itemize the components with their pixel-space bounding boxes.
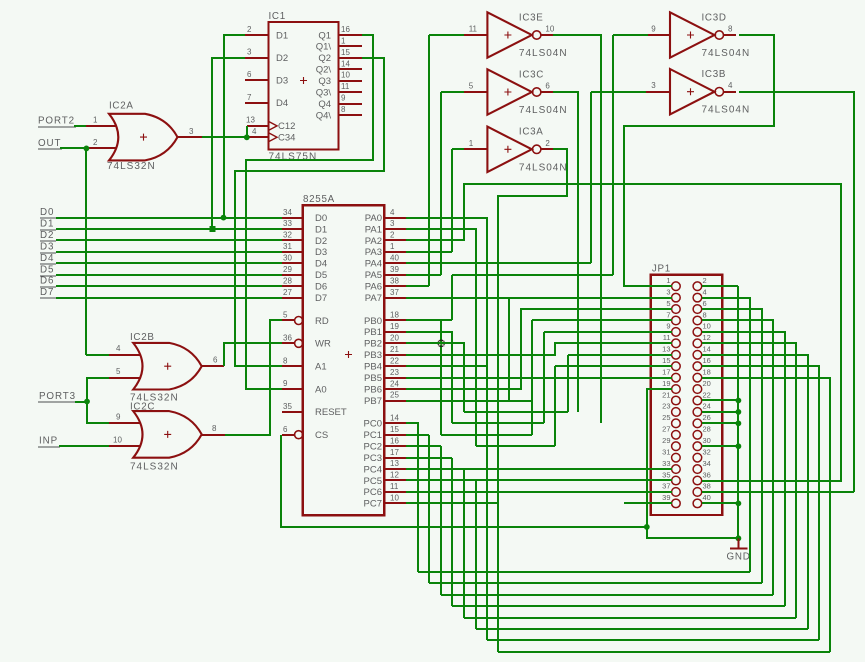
origin cross 8255A bbox=[345, 351, 352, 358]
ground vertical from JP1 pin2 bbox=[737, 286, 739, 538]
8255 pin PA2 stub bbox=[384, 239, 406, 241]
svg-text:1: 1 bbox=[93, 116, 98, 125]
wire JP1 pin 24 to ground vertical bbox=[702, 411, 738, 413]
wire channel PC3 down to rail4 bbox=[451, 458, 453, 606]
connector JP1 box bbox=[651, 275, 723, 515]
svg-text:RESET: RESET bbox=[315, 407, 347, 418]
svg-text:21: 21 bbox=[662, 390, 670, 399]
IC1 pin 16 (Q1) stub bbox=[338, 34, 362, 36]
wire net INP to IC2C pin10 bbox=[59, 445, 109, 447]
8255 pin 35 (RESET) stub bbox=[282, 411, 303, 413]
svg-text:PA1: PA1 bbox=[365, 224, 382, 235]
svg-text:D3: D3 bbox=[40, 241, 54, 252]
JP1 pin 36 pad bbox=[693, 476, 702, 485]
8255 pin D6 stub bbox=[282, 285, 303, 287]
svg-text:19: 19 bbox=[390, 322, 399, 331]
svg-text:25: 25 bbox=[390, 391, 399, 400]
IC3B output pin 4 stub bbox=[724, 91, 736, 93]
8255 pin 6 (CS) stub bbox=[282, 434, 295, 436]
svg-text:26: 26 bbox=[703, 413, 711, 422]
wire JP1 pin 30 to ground vertical bbox=[702, 445, 738, 447]
wire PA2 up to long top wire to JP1 pin36 bbox=[406, 184, 841, 481]
wire net D6 bbox=[56, 285, 282, 287]
8255 pin D7 stub bbox=[282, 297, 303, 299]
wire channel PC5 down to rail6 bbox=[475, 480, 477, 629]
wire PC5 to JP1 pin35 direct bbox=[406, 479, 672, 481]
wire net OUT to IC2A pin2 bbox=[60, 147, 86, 149]
svg-text:74LS04N: 74LS04N bbox=[519, 105, 568, 116]
svg-text:5: 5 bbox=[116, 367, 121, 376]
8255 pin PA4 stub bbox=[384, 262, 406, 264]
svg-text:4: 4 bbox=[728, 81, 733, 90]
inverter IC3C 74LS04N bbox=[487, 69, 531, 114]
svg-text:CS: CS bbox=[315, 430, 328, 441]
wire PB2 down channel to jog bbox=[406, 343, 464, 412]
svg-text:D4: D4 bbox=[40, 253, 54, 264]
svg-text:38: 38 bbox=[703, 482, 711, 491]
8255 pin 9 (A0) stub bbox=[282, 388, 303, 390]
wire net D2 bbox=[56, 239, 282, 241]
svg-text:6: 6 bbox=[703, 299, 707, 308]
svg-text:Q3: Q3 bbox=[318, 76, 331, 87]
svg-text:10: 10 bbox=[703, 322, 711, 331]
svg-text:10: 10 bbox=[390, 494, 399, 503]
wire bottom rail 3 bbox=[441, 594, 773, 596]
wire PA3 to IC3A input channel bbox=[406, 251, 452, 253]
svg-text:15: 15 bbox=[662, 356, 670, 365]
svg-text:3: 3 bbox=[390, 219, 395, 228]
wire net D1 bbox=[56, 228, 282, 230]
JP1 pin 16 pad bbox=[693, 362, 702, 371]
JP1 pin 18 pad bbox=[693, 373, 702, 382]
wire jog PB0 to JP1 pin7 riser bbox=[441, 434, 532, 436]
8255 pin PB1 stub bbox=[384, 331, 406, 333]
svg-text:9: 9 bbox=[651, 25, 656, 34]
svg-text:30: 30 bbox=[283, 254, 292, 263]
wire net D3 bbox=[56, 251, 282, 253]
wire net PORT3 bbox=[75, 401, 87, 403]
IC1 pin 7 (D4) stub bbox=[245, 102, 268, 104]
svg-text:34: 34 bbox=[703, 459, 711, 468]
svg-text:C12: C12 bbox=[278, 121, 295, 132]
JP1 pin 32 pad bbox=[693, 453, 702, 462]
svg-text:18: 18 bbox=[703, 367, 711, 376]
svg-text:20: 20 bbox=[390, 334, 399, 343]
svg-text:30: 30 bbox=[703, 436, 711, 445]
IC1 pin 15 (Q2) stub bbox=[338, 57, 362, 59]
svg-text:74LS04N: 74LS04N bbox=[519, 162, 568, 173]
IC3D input pin 9 stub bbox=[646, 34, 670, 36]
svg-text:18: 18 bbox=[390, 311, 399, 320]
svg-text:IC1: IC1 bbox=[269, 11, 286, 22]
wire IC1 Q1 to 8255 A0 bbox=[246, 35, 373, 389]
svg-text:74LS32N: 74LS32N bbox=[130, 462, 179, 473]
svg-text:25: 25 bbox=[662, 413, 670, 422]
IC2B pin 4 stub bbox=[109, 354, 141, 356]
svg-text:PB0: PB0 bbox=[364, 316, 382, 327]
svg-text:14: 14 bbox=[341, 59, 350, 68]
svg-text:D2: D2 bbox=[315, 236, 327, 247]
svg-text:33: 33 bbox=[283, 219, 292, 228]
wire JP1 pin15 row bbox=[555, 365, 672, 367]
8255 pin 8 (A1) stub bbox=[282, 365, 303, 367]
svg-text:Q4\: Q4\ bbox=[316, 110, 332, 121]
svg-text:D2: D2 bbox=[276, 53, 288, 64]
svg-text:29: 29 bbox=[283, 265, 292, 274]
svg-text:3: 3 bbox=[666, 287, 670, 296]
wire PC3 to channel bbox=[406, 457, 452, 459]
IC2C output pin 8 stub bbox=[202, 434, 225, 436]
IC1 pin 8 (Q4\) stub bbox=[338, 114, 362, 116]
8255 pin PC3 stub bbox=[384, 457, 406, 459]
svg-text:JP1: JP1 bbox=[652, 264, 671, 275]
svg-text:31: 31 bbox=[662, 447, 670, 456]
JP1 pin 28 pad bbox=[693, 430, 702, 439]
junction OUT at vertical bbox=[84, 146, 90, 152]
svg-text:PB1: PB1 bbox=[364, 327, 382, 338]
JP1 pin 6 pad bbox=[693, 305, 702, 314]
8255 pin PC4 stub bbox=[384, 468, 406, 470]
junction on D0 line bbox=[221, 215, 227, 221]
svg-text:PC5: PC5 bbox=[364, 476, 382, 487]
wire jog PB2 to JP1 pin13 riser bbox=[464, 411, 568, 413]
wire JP1 pin15 riser vertical bbox=[554, 366, 556, 446]
svg-text:D7: D7 bbox=[315, 293, 327, 304]
IC3A output pin 2 stub bbox=[541, 148, 553, 150]
svg-text:PORT2: PORT2 bbox=[38, 115, 75, 126]
svg-text:D3: D3 bbox=[315, 247, 327, 258]
junction ground at pin 40 bbox=[736, 500, 742, 506]
svg-text:40: 40 bbox=[390, 254, 399, 263]
svg-text:15: 15 bbox=[341, 48, 350, 57]
JP1 pin 11 pad bbox=[672, 339, 681, 348]
wire IC3D-in jog at PA5 row bbox=[452, 274, 613, 276]
svg-text:74LS04N: 74LS04N bbox=[702, 105, 751, 116]
cursor crosshair marker bbox=[438, 340, 444, 346]
IC1 clock pin 4 (C34) stub and wedge bbox=[247, 136, 268, 138]
svg-text:33: 33 bbox=[662, 459, 670, 468]
inverter IC3D 74LS04N bbox=[670, 12, 714, 57]
svg-text:PC0: PC0 bbox=[364, 419, 382, 430]
svg-text:D5: D5 bbox=[40, 264, 54, 275]
IC3B input pin 3 stub bbox=[646, 91, 670, 93]
svg-text:IC2C: IC2C bbox=[130, 402, 155, 413]
svg-text:IC2A: IC2A bbox=[109, 101, 134, 112]
8255 pin D1 stub bbox=[282, 228, 303, 230]
JP1 pin 22 pad bbox=[693, 396, 702, 405]
svg-text:1: 1 bbox=[469, 139, 474, 148]
svg-text:4: 4 bbox=[116, 344, 121, 353]
svg-text:11: 11 bbox=[390, 482, 399, 491]
JP1 pin 19 pad bbox=[672, 385, 681, 394]
wire net OUT vertical down to IC2B pin 4 bbox=[85, 148, 87, 355]
svg-text:38: 38 bbox=[390, 276, 399, 285]
junction ground at pin 26 bbox=[736, 420, 742, 426]
wire PC1 to channel bbox=[406, 434, 429, 436]
svg-text:9: 9 bbox=[283, 379, 288, 388]
svg-text:16: 16 bbox=[341, 25, 350, 34]
wire PA0 down channel to rail7 bbox=[406, 218, 487, 640]
svg-text:D1: D1 bbox=[276, 30, 288, 41]
svg-text:31: 31 bbox=[283, 242, 292, 251]
8255 pin PC5 stub bbox=[384, 479, 406, 481]
svg-text:10: 10 bbox=[545, 25, 554, 34]
IC IC1 74LS75N box bbox=[269, 22, 339, 150]
JP1 pin 17 pad bbox=[672, 373, 681, 382]
svg-text:8: 8 bbox=[341, 105, 346, 114]
8255 pin PB4 stub bbox=[384, 365, 406, 367]
inverter IC3B 74LS04N bbox=[670, 69, 714, 114]
wire JP1 pin 6 staircase to rail2 bbox=[702, 309, 762, 583]
wire PB7 into pin7 riser junction bbox=[406, 400, 532, 402]
svg-text:23: 23 bbox=[390, 368, 399, 377]
svg-text:D6: D6 bbox=[315, 281, 327, 292]
svg-text:D5: D5 bbox=[315, 270, 327, 281]
svg-text:A1: A1 bbox=[315, 362, 327, 373]
wire IC3A input from PA3 channel bbox=[452, 148, 464, 150]
svg-text:74LS04N: 74LS04N bbox=[702, 48, 751, 59]
wire PA7 to JP1 pin3 bbox=[406, 297, 672, 299]
svg-text:Q4: Q4 bbox=[318, 99, 331, 110]
svg-text:IC3C: IC3C bbox=[519, 69, 544, 80]
IC2A output pin 3 stub bbox=[178, 136, 202, 138]
svg-text:3: 3 bbox=[189, 127, 194, 136]
svg-text:14: 14 bbox=[390, 414, 399, 423]
svg-text:29: 29 bbox=[662, 436, 670, 445]
8255 pin D2 stub bbox=[282, 239, 303, 241]
wire JP1 pin9 riser vertical bbox=[543, 332, 545, 423]
IC3C output pin 6 stub bbox=[541, 91, 553, 93]
JP1 pin 33 pad bbox=[672, 465, 681, 474]
svg-text:D0: D0 bbox=[40, 207, 54, 218]
svg-text:Q1: Q1 bbox=[318, 30, 331, 41]
8255 pin PB3 stub bbox=[384, 354, 406, 356]
JP1 pin 39 pad bbox=[672, 499, 681, 508]
JP1 pin 30 pad bbox=[693, 442, 702, 451]
wire net D7 bbox=[56, 297, 282, 299]
svg-text:PA0: PA0 bbox=[365, 213, 382, 224]
svg-text:IC2B: IC2B bbox=[130, 332, 155, 343]
8255 pin PA7 stub bbox=[384, 297, 406, 299]
svg-text:PA3: PA3 bbox=[365, 247, 382, 258]
wire JP1 pin 22 to ground vertical bbox=[702, 399, 738, 401]
svg-text:39: 39 bbox=[390, 265, 399, 274]
svg-text:PB5: PB5 bbox=[364, 373, 382, 384]
8255 pin 5 (RD) stub bbox=[282, 319, 295, 321]
wire bottom rail 7 bbox=[487, 639, 819, 641]
svg-text:6: 6 bbox=[545, 82, 550, 91]
svg-text:8: 8 bbox=[283, 356, 288, 365]
JP1 pin 15 pad bbox=[672, 362, 681, 371]
IC2B output pin 6 stub bbox=[202, 365, 224, 367]
OR gate IC2C 74LS32N bbox=[133, 411, 202, 458]
svg-text:27: 27 bbox=[662, 425, 670, 434]
svg-text:IC3E: IC3E bbox=[519, 12, 544, 23]
wire channel IC3A-in to PA3 bbox=[451, 149, 453, 252]
JP1 pin 2 pad bbox=[693, 282, 702, 291]
svg-text:34: 34 bbox=[283, 208, 292, 217]
svg-text:7: 7 bbox=[666, 310, 670, 319]
svg-text:3: 3 bbox=[247, 48, 252, 57]
svg-text:15: 15 bbox=[390, 425, 399, 434]
IC3E input pin 11 stub bbox=[464, 34, 487, 36]
svg-text:D6: D6 bbox=[40, 276, 54, 287]
JP1 pin 24 pad bbox=[693, 408, 702, 417]
8255 pin PC6 stub bbox=[384, 491, 406, 493]
svg-text:2: 2 bbox=[545, 139, 550, 148]
svg-text:74LS75N: 74LS75N bbox=[269, 152, 318, 163]
wire PA1 down channel through PB3 to jog bbox=[406, 229, 476, 446]
IC1 pin 6 (D3) stub bbox=[245, 79, 268, 81]
wire bottom rail 1 bbox=[418, 571, 750, 573]
svg-text:8255A: 8255A bbox=[303, 194, 335, 205]
svg-text:1: 1 bbox=[390, 242, 395, 251]
8255 pin PB7 stub bbox=[384, 400, 406, 402]
svg-text:4: 4 bbox=[252, 127, 257, 136]
IC2B pin 5 stub bbox=[109, 377, 141, 379]
wire IC3D output loop to JP1 pin1 bbox=[624, 35, 774, 286]
wire bottom rail 8 bbox=[498, 651, 830, 653]
svg-text:4: 4 bbox=[390, 208, 395, 217]
wire IC3D input riser bbox=[613, 34, 648, 36]
svg-text:PB6: PB6 bbox=[364, 384, 382, 395]
svg-text:PB7: PB7 bbox=[364, 396, 382, 407]
IC1 pin 14 (Q2\) stub bbox=[338, 68, 362, 70]
svg-text:74LS04N: 74LS04N bbox=[519, 48, 568, 59]
wire JP1 pin 14 staircase to rail6 bbox=[702, 355, 808, 629]
wire IC3E input from channel bbox=[429, 34, 464, 36]
svg-text:Q3\: Q3\ bbox=[316, 88, 332, 99]
svg-text:9: 9 bbox=[116, 413, 121, 422]
wire IC3B input from PA4 bbox=[591, 91, 646, 93]
svg-text:6: 6 bbox=[247, 70, 252, 79]
svg-text:PB3: PB3 bbox=[364, 350, 382, 361]
svg-text:INP: INP bbox=[39, 435, 58, 446]
IC1 pin 3 (D2) stub bbox=[245, 57, 268, 59]
wire channel IC3E-in down to PA6 bbox=[428, 35, 430, 286]
svg-text:5: 5 bbox=[283, 311, 288, 320]
wire IC3A output loop to channel bbox=[498, 149, 567, 652]
JP1 pin 5 pad bbox=[672, 305, 681, 314]
JP1 pin 40 pad bbox=[693, 499, 702, 508]
IC3D output pin 8 stub bbox=[724, 34, 736, 36]
wire jog PB1 to JP1 pin9 riser bbox=[452, 422, 544, 424]
wire PC2 to channel bbox=[406, 445, 441, 447]
svg-text:Q2: Q2 bbox=[318, 53, 331, 64]
JP1 pin 35 pad bbox=[672, 476, 681, 485]
svg-text:GND: GND bbox=[727, 552, 751, 563]
8255 pin PA0 stub bbox=[384, 217, 406, 219]
wire channel PC4 down to rail5 bbox=[463, 469, 465, 618]
svg-text:16: 16 bbox=[390, 436, 399, 445]
svg-text:6: 6 bbox=[283, 425, 288, 434]
svg-text:24: 24 bbox=[390, 379, 399, 388]
wire channel PC1 to rail2 lower segment bbox=[428, 435, 430, 583]
JP1 pin 26 pad bbox=[693, 419, 702, 428]
svg-text:12: 12 bbox=[390, 471, 399, 480]
svg-text:3: 3 bbox=[651, 81, 656, 90]
wire channel IC3B-in to PA4 bbox=[590, 92, 592, 263]
svg-text:D2: D2 bbox=[40, 230, 54, 241]
wire PC4 to JP1 pin33 direct bbox=[406, 468, 672, 470]
JP1 pin 21 pad bbox=[672, 396, 681, 405]
svg-text:17: 17 bbox=[662, 367, 670, 376]
svg-text:11: 11 bbox=[663, 333, 671, 342]
svg-text:12: 12 bbox=[703, 333, 711, 342]
svg-text:35: 35 bbox=[283, 402, 292, 411]
svg-text:13: 13 bbox=[246, 116, 255, 125]
svg-text:IC3A: IC3A bbox=[519, 127, 544, 138]
svg-text:PA4: PA4 bbox=[365, 259, 382, 270]
svg-text:5: 5 bbox=[666, 299, 670, 308]
svg-text:WR: WR bbox=[315, 339, 331, 350]
JP1 pin 13 pad bbox=[672, 350, 681, 359]
JP1 pin 1 pad bbox=[672, 282, 681, 291]
wire channel IC3D-in vertical bbox=[612, 35, 614, 275]
8255 pin D5 stub bbox=[282, 274, 303, 276]
8255 pin PA1 stub bbox=[384, 228, 406, 230]
wire IC3B output to far right vertical bbox=[739, 92, 854, 492]
wire channel IC3C-in to PA5 bbox=[440, 92, 442, 275]
svg-text:22: 22 bbox=[390, 356, 399, 365]
wire bottom rail 6 bbox=[476, 628, 808, 630]
svg-text:PA5: PA5 bbox=[365, 270, 382, 281]
svg-text:20: 20 bbox=[703, 379, 711, 388]
JP1 pin 8 pad bbox=[693, 316, 702, 325]
svg-text:21: 21 bbox=[390, 345, 399, 354]
wire PB1 down channel to jog bbox=[406, 332, 452, 423]
svg-text:36: 36 bbox=[283, 334, 292, 343]
wire JP1 pin 8 staircase to rail3 bbox=[702, 320, 773, 595]
IC1 pin 1 (Q1\) stub bbox=[338, 45, 362, 47]
IC1 pin 9 (Q4) stub bbox=[338, 103, 362, 105]
svg-text:10: 10 bbox=[113, 435, 122, 444]
wire net PORT2 bbox=[74, 125, 86, 127]
8255 pin 36 (WR) stub bbox=[282, 342, 295, 344]
8255 pin PC7 stub bbox=[384, 502, 406, 504]
junction ground at pin 30 bbox=[736, 443, 742, 449]
8255 pin PB5 stub bbox=[384, 377, 406, 379]
wire JP1 pin38 to IC3B output vertical bbox=[702, 491, 854, 493]
wire ground rail jog to GND symbol bbox=[647, 527, 738, 538]
OR gate IC2A 74LS32N bbox=[109, 114, 178, 161]
IC2C pin 9 stub bbox=[109, 422, 141, 424]
svg-text:PB4: PB4 bbox=[364, 362, 382, 373]
wire IC1 pin3 left and down to D1 bbox=[212, 58, 245, 229]
wire IC1 Q2 to 8255 A1 bbox=[235, 58, 384, 366]
svg-text:13: 13 bbox=[390, 459, 399, 468]
wire PA6 to IC3E input channel bbox=[406, 285, 429, 287]
svg-text:32: 32 bbox=[703, 447, 711, 456]
wire PB0 to channels bbox=[406, 319, 452, 321]
8255 pin PB2 stub bbox=[384, 342, 406, 344]
svg-text:1: 1 bbox=[341, 36, 346, 45]
svg-text:19: 19 bbox=[662, 379, 670, 388]
svg-text:6: 6 bbox=[213, 356, 218, 365]
wire channel PC2 down to rail3 bbox=[440, 446, 442, 595]
8255 pin PB0 stub bbox=[384, 319, 406, 321]
wire bottom rail 4 bbox=[452, 605, 785, 607]
wire PB5 to JP1 pin17 direct bbox=[406, 377, 672, 379]
svg-text:PC4: PC4 bbox=[364, 464, 382, 475]
IC1 pin 11 (Q3\) stub bbox=[338, 91, 362, 93]
wire JP1 pin7 riser vertical bbox=[531, 320, 533, 435]
JP1 pin 27 pad bbox=[672, 430, 681, 439]
IC2C pin 10 stub bbox=[109, 445, 141, 447]
wire PA5 to IC3C input channel bbox=[406, 274, 441, 276]
junction at IC1 clock feed bbox=[244, 134, 250, 140]
wire net D4 bbox=[56, 262, 282, 264]
